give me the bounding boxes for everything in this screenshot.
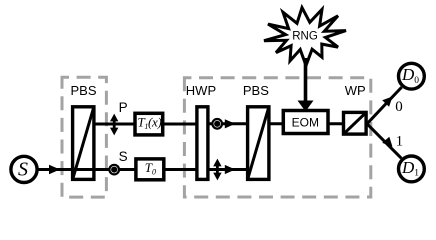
wire WP to D1 [367,124,401,159]
svg-text:0: 0 [395,99,403,115]
wire P line PBS1 to T1 [94,123,136,126]
svg-text:P: P [119,100,128,115]
svg-text:PBS: PBS [71,83,97,98]
svg-text:WP: WP [345,83,366,98]
source S circle [11,156,37,182]
wire HWP to PBS2 bottom [207,168,247,171]
box EOM [283,111,328,134]
polarization symbol: vertical double arrow (P) [110,114,118,136]
RNG control wire to EOM [304,58,308,103]
PBS2 crystal [248,107,269,180]
arrowhead HWP-PBS2 bottom [225,165,236,174]
wire T0 to HWP [164,168,198,171]
box T0 [136,159,164,180]
svg-text:HWP: HWP [186,83,216,98]
wire EOM to WP [327,122,345,125]
wire source to PBS1 (bottom S line) [35,168,135,171]
wire HWP to PBS2 top [207,122,247,125]
HWP plate [197,107,208,180]
arrowhead on source wire [49,165,60,175]
arrowhead RNG wire [298,101,314,112]
svg-text:EOM: EOM [292,115,319,129]
wire T1 to HWP [163,123,198,126]
polarization symbol: circle-dot (after HWP, top) [212,119,222,129]
dashed box analyzer stage [184,78,370,197]
arrowhead to D0 [382,97,392,107]
svg-text:PBS: PBS [243,83,269,98]
WP wave plate [344,112,367,134]
wire WP to D0 [367,87,402,124]
polarization symbol: vertical double arrow (after HWP, bottom) [213,159,221,181]
svg-text:T1(x): T1(x) [138,115,162,132]
box T1(x) [135,113,163,135]
dashed box PBS stage 1 [62,77,106,197]
svg-text:S: S [119,149,128,164]
detector D1 [399,156,425,182]
arrowhead HWP-PBS2 top [225,119,236,128]
arrowhead to D1 [382,137,392,147]
polarization symbol: circle-dot (S) [109,165,119,175]
svg-text:1: 1 [396,133,404,149]
PBS1 crystal [73,107,94,180]
svg-text:RNG: RNG [292,30,318,42]
RNG starburst [264,8,346,66]
svg-text:S: S [18,159,28,181]
detector D0 [399,63,425,89]
wire PBS2 to EOM [268,122,285,125]
